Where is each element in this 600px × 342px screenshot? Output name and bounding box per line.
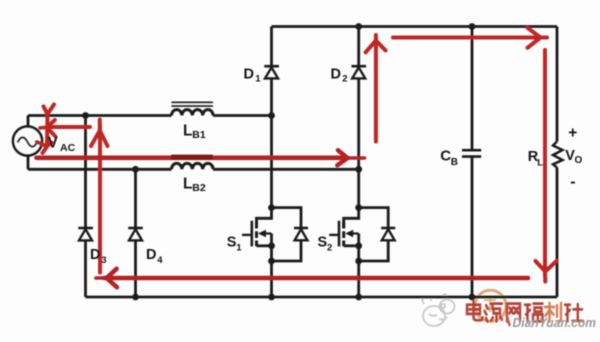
char li (lighter) — [545, 303, 561, 321]
AC loop top wire — [28, 114, 272, 117]
right branch wire (RL bottom) — [556, 168, 559, 298]
MOSFET S2 gate lead — [329, 234, 339, 236]
svg-text:L: L — [183, 176, 192, 193]
node: S1 drain — [268, 204, 275, 211]
right branch wire (RL top) — [556, 27, 559, 142]
node: S1 bottom loop — [268, 258, 275, 265]
D4 branch wire — [134, 169, 137, 297]
node: bottom wire / LB2 / S2 — [355, 166, 362, 173]
svg-text:S: S — [318, 234, 328, 250]
char wang — [507, 304, 520, 322]
node: bottom rail / S2 — [355, 294, 362, 301]
watermark orange ring — [475, 290, 506, 321]
inductor LB1 core bars — [171, 102, 213, 106]
diode D4 — [128, 228, 143, 240]
S1 body diode — [294, 228, 308, 240]
D1 branch wire — [270, 27, 273, 116]
AC loop bottom wire — [28, 168, 359, 171]
AC loop left wire — [27, 116, 30, 170]
MOSFET S2 source column — [357, 234, 360, 298]
svg-text:DianYuan.com: DianYuan.com — [513, 316, 597, 330]
MOSFET S1 body arrow — [258, 230, 272, 237]
D3 branch wire — [84, 116, 87, 298]
svg-text:1: 1 — [255, 73, 261, 84]
svg-text:D: D — [90, 247, 100, 263]
svg-text:B: B — [451, 157, 458, 168]
red current arrows — [37, 28, 557, 288]
MOSFET S1 source lead — [257, 244, 272, 247]
svg-text:3: 3 — [101, 255, 106, 266]
red arrow: down through RL — [536, 50, 557, 282]
node: top rail / D2 — [355, 23, 362, 30]
char dian — [467, 301, 483, 321]
MOSFET S1 source column — [270, 234, 273, 298]
node: bottom rail / D4 — [132, 294, 139, 301]
capacitor CB branch wire — [471, 27, 474, 298]
svg-text:+: + — [568, 124, 577, 141]
S2 body diode loop — [359, 208, 389, 261]
node: bottom rail / CB — [469, 294, 476, 301]
node: S2 drain — [355, 204, 362, 211]
svg-text:D: D — [146, 247, 156, 263]
red thick line: LB2 current path — [37, 156, 348, 161]
node: bottom rail / S1 — [268, 294, 275, 301]
svg-text:-: - — [570, 173, 575, 190]
char she — [565, 304, 583, 321]
svg-text:4: 4 — [157, 255, 163, 266]
inductor LB2 coil — [172, 163, 214, 169]
svg-text:V: V — [48, 135, 59, 152]
capacitor CB plates — [462, 150, 481, 156]
node: top wire / D3 — [82, 112, 89, 119]
svg-text:L: L — [537, 157, 543, 168]
wire: S1 drain column — [270, 116, 273, 208]
MOSFET S2 channel — [342, 222, 345, 247]
MOSFET S2 source lead — [344, 244, 359, 247]
node: bottom wire / D4 — [132, 166, 139, 173]
svg-text:1: 1 — [236, 243, 242, 254]
resistor RL — [553, 142, 563, 168]
svg-text:S: S — [227, 234, 237, 250]
inductor LB2 core bars — [171, 156, 213, 160]
diode D3 — [78, 228, 93, 240]
red arrowhead into S2 node — [337, 150, 364, 165]
D2 branch wire — [357, 27, 360, 208]
char yuan — [485, 304, 503, 322]
inductor LB1 coil — [172, 110, 214, 116]
svg-text:B1: B1 — [192, 129, 206, 141]
svg-text:B2: B2 — [192, 182, 206, 194]
AC source sine — [18, 137, 38, 146]
S1 body diode loop — [272, 208, 302, 261]
watermark red mark — [507, 315, 510, 326]
red thick line: bottom return path — [104, 276, 528, 281]
red arrow: top rail to the right — [393, 28, 547, 48]
watermark gray doodle — [422, 294, 454, 326]
svg-text:C: C — [440, 147, 451, 164]
MOSFET S2 gate bar — [338, 221, 341, 247]
diode D2 — [352, 66, 367, 78]
MOSFET S1 drain lead — [257, 208, 272, 229]
svg-text:D: D — [331, 67, 341, 83]
svg-text:AC: AC — [60, 142, 76, 154]
red arrow: down into source — [37, 105, 54, 154]
AC source VAC circle — [13, 127, 42, 156]
svg-text:2: 2 — [327, 243, 332, 254]
node: S2 bottom loop — [355, 258, 362, 265]
red arrow: left into VAC — [40, 120, 90, 136]
svg-text:O: O — [575, 155, 583, 166]
MOSFET S1 channel — [255, 222, 258, 247]
char fu — [525, 304, 543, 322]
red arrowhead into D3 node — [96, 269, 117, 288]
maroon overlap on LB2 core — [171, 155, 213, 160]
node: top rail / CB — [469, 23, 476, 30]
red arrow: up through D2 — [366, 35, 386, 142]
bottom rail — [86, 296, 558, 299]
S2 body diode — [381, 228, 395, 240]
node: top wire / LB1 / S1 — [268, 112, 275, 119]
svg-text:D: D — [244, 67, 254, 83]
top rail — [272, 25, 558, 28]
MOSFET S2 body arrow — [345, 230, 359, 237]
watermark chinese text — [467, 301, 583, 322]
svg-text:L: L — [183, 123, 192, 140]
red arrow: up along D3 branch — [91, 120, 108, 273]
node: S2 source stub — [355, 242, 362, 249]
MOSFET S2 drain lead — [344, 208, 359, 229]
MOSFET S1 gate lead — [242, 234, 252, 236]
diode D1 — [264, 66, 279, 78]
node: S1 source stub — [268, 242, 275, 249]
svg-text:2: 2 — [342, 73, 347, 84]
MOSFET S1 gate bar — [251, 221, 254, 247]
